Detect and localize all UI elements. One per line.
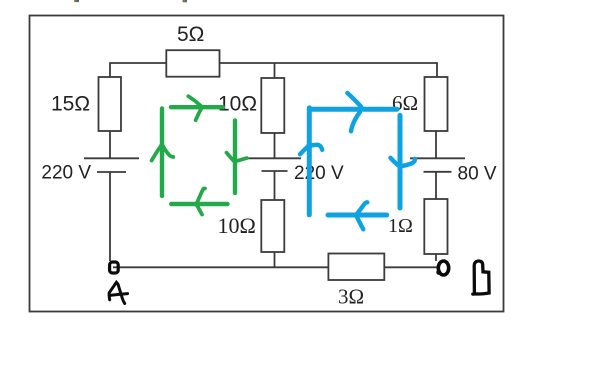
wire blue right vertical: [398, 115, 403, 208]
wire top bus right segment: [220, 63, 438, 77]
handwritten letter A: [109, 282, 127, 303]
border frame: [30, 16, 504, 312]
handwritten letter B: [473, 261, 489, 294]
svg-text:1Ω: 1Ω: [388, 215, 413, 237]
node A marker: [110, 262, 119, 273]
wire green right vertical: [233, 121, 237, 194]
svg-text:15Ω: 15Ω: [51, 93, 90, 116]
arrow green left (bottom side): [196, 188, 205, 204]
blue mesh loop: [309, 108, 400, 215]
resistor 3ohm box: [328, 254, 384, 281]
cropped text fragment top-mid: [183, 0, 185, 2]
arrow green right (top side): [188, 96, 201, 106]
wire middle branch top junction: [274, 63, 276, 78]
svg-text:5Ω: 5Ω: [177, 23, 204, 46]
svg-text:220 V: 220 V: [41, 163, 91, 184]
wire top bus left segment: [110, 63, 166, 77]
wire green left vertical: [160, 109, 164, 197]
wire 15ohm to left battery: [109, 131, 111, 158]
wire green bottom horizontal: [171, 202, 227, 206]
wire blue bottom horizontal: [328, 213, 387, 218]
svg-text:10Ω: 10Ω: [218, 93, 257, 116]
resistor 1ohm box: [424, 199, 447, 254]
arrow blue up (left side): [300, 145, 309, 154]
wire 6ohm to right battery: [435, 131, 437, 158]
arrow green up (left side): [152, 145, 162, 161]
resistor 10ohm top box: [261, 78, 284, 133]
arrow blue right (top side): [347, 93, 361, 107]
wire 1ohm to node B: [435, 254, 437, 261]
wire bottom bus A to 3ohm: [113, 266, 328, 268]
svg-text:3Ω: 3Ω: [338, 285, 364, 309]
wire middle battery to 10ohm-bottom: [274, 171, 276, 200]
svg-text:220 V: 220 V: [294, 163, 344, 184]
green mesh loop: [162, 107, 235, 204]
battery V1 left 220V plates: [84, 158, 139, 172]
wire 10ohm-bottom to bottom bus: [274, 252, 276, 267]
wire 10ohm-top to middle battery: [274, 133, 276, 158]
svg-text:80 V: 80 V: [458, 164, 497, 185]
wire left battery to node A: [109, 172, 111, 261]
resistor 15ohm box: [99, 77, 122, 131]
wire right battery to 1ohm: [435, 172, 437, 199]
wire bottom bus 3ohm to node B: [384, 266, 437, 268]
wire blue left vertical: [307, 108, 312, 215]
wire blue top horizontal: [312, 107, 397, 112]
wire green top horizontal: [171, 105, 223, 109]
arrow blue down (right side): [391, 158, 400, 167]
cropped text fragment top-left: [74, 0, 76, 2]
battery V3 right 80V plates: [410, 158, 465, 172]
resistor 10ohm bottom box: [261, 200, 284, 252]
svg-text:10Ω: 10Ω: [218, 213, 256, 238]
arrow blue left (bottom side): [356, 202, 367, 215]
arrow green down (right side): [227, 153, 235, 162]
battery V2 middle 220V plates: [246, 158, 301, 171]
node B marker: [438, 261, 448, 275]
resistor 5ohm box: [166, 50, 219, 76]
resistor 6ohm box: [425, 77, 448, 131]
